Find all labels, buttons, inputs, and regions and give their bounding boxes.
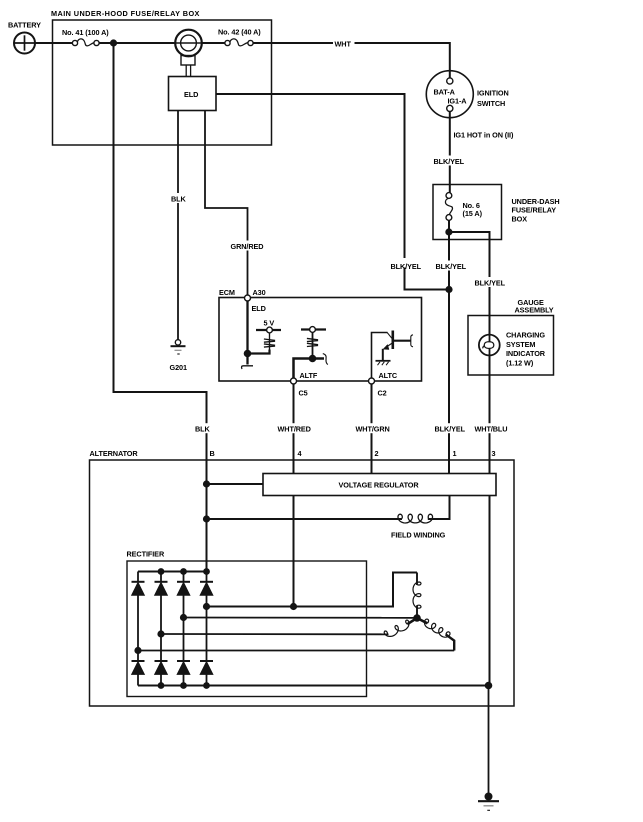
svg-text:IG1-A: IG1-A — [448, 96, 468, 105]
wire WHT to ignition switch — [253, 43, 450, 78]
node top bus c3 — [181, 569, 186, 574]
diode D1 bottom — [132, 661, 145, 686]
diode D3 bottom — [177, 661, 190, 686]
svg-text:2: 2 — [375, 449, 379, 458]
rectifier bottom bus — [138, 685, 489, 687]
svg-text:BOX: BOX — [512, 215, 528, 224]
resistor pull-up — [264, 333, 275, 354]
fuse No.6 value label — [463, 201, 483, 218]
charging system indicator bulb — [479, 335, 500, 356]
wire ELD BLK to G201 — [177, 111, 179, 340]
rectifier top bus — [138, 571, 207, 573]
wire ELD GRN/RED to ECM A30 — [205, 111, 248, 296]
svg-text:GRN/RED: GRN/RED — [231, 242, 264, 251]
under-dash fuse/relay box — [433, 185, 502, 240]
stator coil phase B — [384, 618, 417, 636]
wire to gauge assembly — [449, 232, 490, 316]
wire BLK from battery junction to alternator B — [114, 43, 207, 572]
svg-text:B: B — [210, 449, 215, 458]
ignition switch label — [477, 89, 509, 108]
wire ALTF to C5 — [294, 359, 325, 379]
node bottom bus c2 — [158, 683, 163, 688]
svg-text:BLK/YEL: BLK/YEL — [475, 279, 506, 288]
wire fuse6 to alternator terminal 1 — [448, 220, 450, 473]
main under-hood fuse/relay box — [53, 20, 272, 145]
node wire4 to phase A — [291, 604, 297, 610]
node ALTF junction — [309, 355, 315, 361]
fuse No.41 (100 A) — [72, 39, 99, 46]
svg-text:1: 1 — [453, 449, 457, 458]
svg-text:G201: G201 — [170, 363, 187, 372]
battery — [14, 33, 35, 54]
terminal A30 — [245, 295, 251, 301]
node ECM internal junction — [244, 350, 250, 356]
diode D3 top — [177, 572, 190, 662]
wire neutral to stator center — [184, 617, 415, 619]
wire label WHT — [333, 38, 355, 48]
svg-text:3: 3 — [492, 449, 496, 458]
ELD current sensor ring — [175, 30, 202, 57]
terminal C5 — [291, 378, 297, 384]
wire label BLK lower — [194, 423, 211, 434]
wire label WHT/BLU — [473, 423, 507, 434]
rectifier box — [127, 561, 367, 697]
ignition switch — [426, 71, 473, 118]
node phase c2 — [158, 631, 164, 637]
wire through gauge box — [489, 316, 491, 376]
node stator center — [414, 615, 420, 621]
wire label BLK/YEL bottom — [433, 423, 466, 434]
svg-text:ALTF: ALTF — [300, 371, 318, 380]
wire label WHT/RED — [276, 423, 311, 434]
ELD unit box — [169, 77, 217, 111]
ECM box — [219, 298, 422, 382]
svg-text:ALTERNATOR: ALTERNATOR — [90, 449, 139, 458]
node ground junction — [485, 682, 491, 688]
svg-text:(1.12 W): (1.12 W) — [506, 359, 534, 368]
svg-text:No. 41 (100 A): No. 41 (100 A) — [62, 28, 109, 37]
wire B to regulator — [207, 483, 264, 485]
ground G201 — [171, 340, 186, 354]
node bottom bus c3 — [181, 683, 186, 688]
wire label BLK — [169, 193, 188, 203]
node phase c1 — [135, 648, 141, 654]
under-dash box label — [512, 197, 560, 223]
wire ALTF internal — [312, 332, 314, 358]
wire phase B — [161, 633, 389, 635]
ECM internal ground — [242, 366, 254, 369]
svg-text:BLK: BLK — [195, 425, 211, 434]
wire phase A — [207, 573, 418, 607]
wire IG1 to under-dash fuse box — [449, 112, 451, 193]
svg-text:ECM: ECM — [219, 288, 235, 297]
node phase c3 — [181, 615, 187, 621]
wire A30 internal — [246, 301, 248, 365]
wire sensor to fuse No.42 — [202, 42, 225, 44]
node battery junction — [111, 40, 117, 46]
node phase c4 — [204, 604, 210, 610]
wire gauge to alternator terminal 3 — [489, 375, 491, 686]
svg-text:CHARGING: CHARGING — [506, 330, 545, 339]
svg-text:SYSTEM: SYSTEM — [506, 340, 535, 349]
svg-text:5 V: 5 V — [264, 318, 275, 327]
field winding coil — [398, 514, 433, 523]
diode D4 top — [200, 572, 213, 662]
diode D2 bottom — [155, 661, 168, 686]
fuse No.42 (40 A) — [225, 39, 253, 46]
transistor ALTC — [372, 331, 414, 379]
svg-text:BATTERY: BATTERY — [8, 21, 41, 30]
svg-text:SWITCH: SWITCH — [477, 99, 505, 108]
svg-text:C5: C5 — [299, 388, 308, 397]
svg-text:VOLTAGE REGULATOR: VOLTAGE REGULATOR — [339, 481, 420, 490]
transistor ground — [376, 361, 391, 365]
stator coil phase C — [417, 618, 450, 637]
svg-text:WHT/GRN: WHT/GRN — [356, 425, 390, 434]
svg-text:IG1 HOT in ON (II): IG1 HOT in ON (II) — [454, 130, 514, 139]
alternator box — [90, 460, 515, 706]
wire 4 WHT/RED C5 to rectifier — [293, 384, 295, 607]
svg-text:BAT-A: BAT-A — [434, 88, 456, 97]
svg-text:BLK/YEL: BLK/YEL — [436, 262, 467, 271]
ALTF continuation hook — [323, 354, 328, 365]
node top bus c2 — [158, 569, 163, 574]
node B to regulator junction — [204, 481, 210, 487]
fuse No.6 (15 A) — [445, 193, 452, 221]
node BLK/YEL junction — [446, 287, 452, 293]
svg-text:ELD: ELD — [184, 90, 198, 99]
svg-text:WHT/RED: WHT/RED — [278, 425, 311, 434]
wire fuse41 to ELD sensor — [99, 42, 175, 44]
svg-text:ASSEMBLY: ASSEMBLY — [515, 305, 554, 314]
svg-text:WHT/BLU: WHT/BLU — [475, 425, 508, 434]
svg-text:ELD: ELD — [252, 304, 266, 313]
svg-text:(15 A): (15 A) — [463, 209, 483, 218]
svg-text:WHT: WHT — [335, 39, 352, 48]
ALTF 5V terminal — [301, 327, 326, 333]
wire label WHT/GRN — [354, 423, 390, 434]
wire resistor to junction — [251, 350, 270, 354]
terminal C2 — [369, 378, 375, 384]
svg-text:BLK/YEL: BLK/YEL — [434, 157, 465, 166]
svg-text:MAIN UNDER-HOOD FUSE/RELAY BOX: MAIN UNDER-HOOD FUSE/RELAY BOX — [51, 9, 200, 18]
wire 2 WHT/GRN C2 to regulator — [371, 384, 373, 474]
gauge assembly box — [468, 316, 554, 376]
diode D1 top — [132, 572, 145, 662]
voltage regulator — [263, 474, 496, 496]
gauge assembly label — [515, 298, 554, 315]
svg-text:A30: A30 — [253, 288, 266, 297]
svg-text:INDICATOR: INDICATOR — [506, 349, 546, 358]
svg-text:C2: C2 — [378, 388, 387, 397]
diode D2 top — [155, 572, 168, 662]
svg-text:FUSE/RELAY: FUSE/RELAY — [512, 206, 557, 215]
stator coil phase A — [413, 573, 421, 619]
resistor ALTF — [307, 338, 318, 346]
wire label BLK/YEL gauge — [473, 277, 506, 288]
svg-text:FIELD WINDING: FIELD WINDING — [391, 531, 446, 540]
node top bus c4 — [204, 569, 209, 574]
svg-text:BLK: BLK — [171, 194, 187, 203]
ground chassis — [478, 793, 499, 810]
svg-text:BLK/YEL: BLK/YEL — [391, 262, 422, 271]
svg-text:No. 42 (40 A): No. 42 (40 A) — [218, 28, 261, 37]
charging system indicator label — [506, 330, 546, 367]
wire B to field winding — [207, 518, 403, 520]
wire label BLK/YEL left — [389, 258, 422, 271]
wire label BLK/YEL upper — [432, 156, 465, 167]
node bottom bus c4 — [204, 683, 209, 688]
5V supply terminal — [256, 327, 281, 333]
svg-text:RECTIFIER: RECTIFIER — [127, 549, 165, 558]
node under-dash output junction — [446, 229, 452, 235]
wire battery to fuse No.41 — [35, 42, 73, 44]
wire to chassis ground — [488, 686, 490, 798]
wire label BLK/YEL mid — [434, 261, 467, 272]
svg-text:IGNITION: IGNITION — [477, 89, 509, 98]
node B to field junction — [204, 516, 210, 522]
wire field winding to regulator — [428, 496, 450, 520]
ignition switch terminal labels — [434, 88, 468, 106]
svg-text:ALTC: ALTC — [379, 371, 398, 380]
ELD sensor stem — [181, 56, 195, 77]
wire ELD feed BLK/YEL — [216, 94, 449, 290]
wire phase C — [138, 650, 454, 652]
wire label GRN/RED — [229, 241, 267, 252]
diode D4 bottom — [200, 661, 213, 686]
svg-text:BLK/YEL: BLK/YEL — [435, 425, 466, 434]
